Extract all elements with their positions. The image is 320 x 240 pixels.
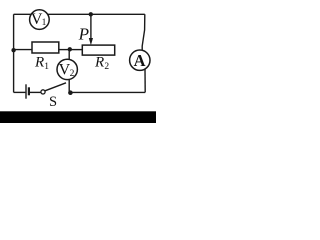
node: left junction on middle branch bbox=[11, 48, 15, 52]
rheostat R2 bbox=[82, 45, 114, 55]
wire: middle branch from left wire to R1 bbox=[14, 49, 32, 51]
svg-text:P: P bbox=[78, 24, 89, 43]
wire: ammeter down to bottom-right corner bbox=[144, 69, 146, 92]
wire: top horizontal segment from V1 to top-right corner bbox=[48, 13, 145, 15]
svg-text:S: S bbox=[49, 94, 57, 110]
wire: bottom from junction to bottom-right corner bbox=[70, 91, 145, 93]
black bar at bottom bbox=[0, 111, 156, 123]
switch S pivot circle bbox=[41, 90, 45, 94]
switch S lever (open) bbox=[45, 83, 66, 91]
voltmeter V1 bbox=[30, 10, 50, 30]
wire: from V2 down to bottom junction bbox=[68, 80, 70, 93]
wire: right vertical, top corner down to ammeter bbox=[142, 14, 145, 50]
ammeter A bbox=[130, 50, 150, 70]
label R2 bbox=[94, 55, 109, 73]
svg-text:2: 2 bbox=[70, 69, 75, 79]
wire: stem from middle junction down to V2 bbox=[68, 49, 70, 59]
node: middle junction bbox=[68, 47, 72, 51]
resistor R1 bbox=[32, 42, 59, 53]
wire: top-left horizontal segment from left corner to V1 bbox=[14, 13, 31, 15]
node: top junction (slider tap) bbox=[89, 12, 93, 16]
label R1 bbox=[34, 55, 49, 73]
svg-text:1: 1 bbox=[42, 18, 47, 28]
svg-text:R: R bbox=[34, 55, 44, 71]
wire: slider stem down from top junction bbox=[90, 14, 92, 40]
voltmeter V2 bbox=[57, 59, 77, 79]
battery: long plate bbox=[25, 84, 27, 98]
background bbox=[0, 0, 156, 123]
wire: bottom-left from corner to battery bbox=[14, 91, 26, 93]
svg-text:2: 2 bbox=[104, 62, 109, 72]
node: bottom junction (switch contact) bbox=[68, 90, 73, 95]
battery: short thick plate bbox=[28, 87, 30, 95]
wire: left vertical wire bbox=[13, 14, 15, 92]
wire: battery to switch pivot bbox=[30, 91, 41, 93]
svg-text:1: 1 bbox=[44, 62, 49, 72]
wire: R1 to middle junction bbox=[59, 49, 70, 51]
svg-text:A: A bbox=[134, 51, 146, 70]
slider arrowhead P pointing into R2 bbox=[89, 38, 93, 45]
svg-text:R: R bbox=[94, 55, 104, 71]
wire: middle junction to R2 bbox=[70, 49, 83, 51]
